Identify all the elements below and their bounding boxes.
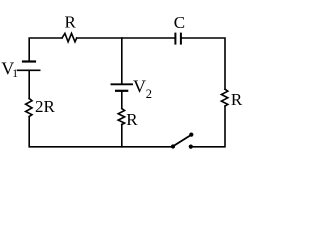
battery V2 short bottom plate bbox=[116, 90, 127, 92]
switch arm end dot bbox=[189, 133, 193, 137]
resistor R (right, vertical zigzag) bbox=[221, 89, 227, 106]
resistor R (top, zigzag) bbox=[62, 33, 77, 41]
svg-text:R: R bbox=[231, 90, 243, 109]
svg-text:V: V bbox=[133, 77, 146, 97]
wire: bottom left segment, bottom-left corner, left wire lower bbox=[29, 117, 173, 147]
resistor 2R (left, vertical zigzag) bbox=[26, 99, 32, 117]
capacitor C right plate bbox=[180, 34, 182, 44]
wire: top-left corner, left wire upper segment bbox=[29, 38, 62, 60]
battery V1 short top plate bbox=[23, 60, 35, 62]
wire: middle branch lower (to bottom wire) bbox=[121, 125, 123, 147]
wire: top-right segment, right wire upper bbox=[181, 38, 225, 89]
battery V2 long top plate bbox=[112, 83, 133, 85]
capacitor C left plate bbox=[174, 34, 176, 44]
svg-text:C: C bbox=[174, 13, 185, 32]
wire: right lower, bottom-right corner, to switch right contact bbox=[191, 106, 225, 147]
svg-text:1: 1 bbox=[12, 68, 18, 80]
svg-text:2: 2 bbox=[146, 87, 152, 101]
svg-text:R: R bbox=[126, 110, 138, 129]
switch left contact dot bbox=[171, 144, 175, 148]
svg-text:2R: 2R bbox=[35, 97, 56, 116]
battery V1 long bottom plate bbox=[18, 69, 40, 71]
switch arm bbox=[173, 135, 191, 146]
wire: middle branch upper (top junction to V2) bbox=[121, 38, 123, 83]
wire: middle branch between V2 and R bbox=[121, 92, 123, 109]
switch right contact dot bbox=[189, 145, 193, 149]
svg-text:R: R bbox=[65, 12, 77, 31]
wire: left middle (between V1 and 2R) bbox=[28, 71, 30, 99]
resistor R (middle, vertical zigzag) bbox=[118, 109, 124, 125]
wire: top middle segment bbox=[77, 37, 176, 39]
